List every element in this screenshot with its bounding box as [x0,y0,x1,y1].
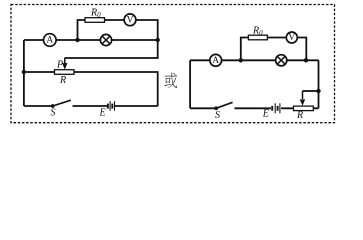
lamp (right circuit) [276,55,287,66]
ammeter A (left circuit) [44,34,57,47]
rheostat R box (right circuit) [294,106,314,111]
wire: rheostat row y=72 and right vertical down (left circuit) [24,72,158,106]
wire: bottom row switch-to-battery segment (left circuit) [73,105,108,107]
wire: left vertical (right circuit) [189,60,191,108]
svg-text:E: E [262,109,269,120]
text: 或 (or) [165,73,178,88]
wire: main row y=60.3 ammeter/lamp (right circuit) [190,59,318,61]
battery E (left circuit) [108,101,115,111]
switch S (left circuit) [51,100,71,108]
node: junction dot left-vertical/rheostat (left circuit) [22,70,26,74]
node: junction dot main-row right (left circuit) [156,38,160,42]
voltmeter V (left circuit) [124,14,136,26]
wire: slider feed y=58 from right vertical (left circuit) [65,40,158,58]
voltmeter V (right circuit) [286,32,297,43]
wire: bottom row left segment to switch (right circuit) [190,107,216,109]
wire: voltmeter branch loop y=37.8 (right circuit) [241,38,306,61]
battery E (right circuit) [272,103,280,113]
wire: bottom row switch-to-battery segment (right circuit) [235,107,271,109]
wire: wiper feed y=91 (right circuit) [303,90,319,92]
lamp (left circuit) [100,34,111,45]
rheostat R slider arrow (right circuit) [300,91,305,106]
wire: left vertical (left circuit) [23,40,25,106]
node: junction dot main-row/voltmeter-branch left (right circuit) [239,58,243,62]
rheostat R slider arrow P (left circuit) [62,58,67,70]
svg-text:V: V [127,15,134,25]
svg-text:S: S [215,110,220,121]
node: junction dot main-row/voltmeter-branch right (right circuit) [304,58,308,62]
svg-text:E: E [99,108,106,119]
wire: bottom row battery-to-rheostat segment (right circuit) [281,107,318,109]
wire: right vertical (right circuit) [318,60,320,108]
svg-text:A: A [46,36,53,46]
ammeter A (right circuit) [210,54,222,66]
svg-text:R: R [59,75,66,86]
svg-text:R: R [296,110,303,121]
wire: bottom row left segment to switch (left circuit) [24,105,53,107]
svg-text:P: P [56,60,63,71]
node: junction dot right-vertical/wiper (right circuit) [316,89,320,93]
svg-text:S: S [51,108,56,119]
resistor R0 box (right circuit) [248,35,267,40]
rheostat R box (left circuit) [55,70,75,75]
wire: main row y=40 ammeter/lamp (left circuit) [24,39,158,41]
wire: voltmeter branch loop y=20 (left circuit) [78,20,158,40]
node: junction dot main-row/voltmeter-branch left (left circuit) [75,38,79,42]
switch S (right circuit) [214,102,232,110]
svg-text:A: A [212,56,219,66]
resistor R0 box (left circuit) [85,18,105,23]
svg-text:V: V [288,33,295,43]
wire: bottom row battery-to-right segment (left circuit) [115,105,158,107]
